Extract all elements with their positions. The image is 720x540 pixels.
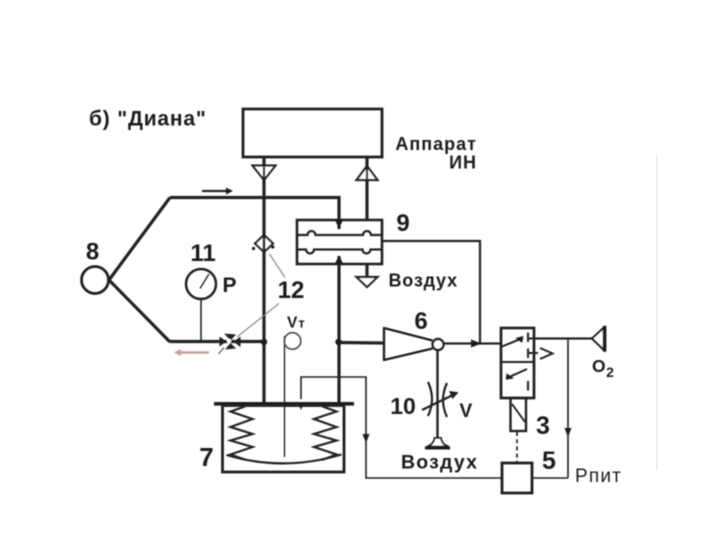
svg-text:5: 5 [542,447,556,475]
svg-text:8: 8 [86,239,99,266]
svg-text:Воздух: Воздух [401,452,478,474]
svg-text:б) "Диана": б) "Диана" [89,108,207,131]
svg-text:12: 12 [278,277,305,304]
svg-text:10: 10 [390,393,416,419]
svg-text:11: 11 [190,240,215,267]
svg-text:6: 6 [414,308,427,335]
svg-text:ИН: ИН [449,153,477,173]
svg-text:P: P [223,274,237,297]
svg-text:3: 3 [536,412,550,440]
svg-text:V: V [460,401,473,422]
svg-text:9: 9 [396,210,409,237]
svg-text:Воздух: Воздух [389,271,458,291]
svg-text:Рпит: Рпит [575,466,622,487]
svg-text:Vт: Vт [287,315,305,332]
svg-text:Аппарат: Аппарат [395,134,477,154]
svg-text:7: 7 [199,442,213,472]
